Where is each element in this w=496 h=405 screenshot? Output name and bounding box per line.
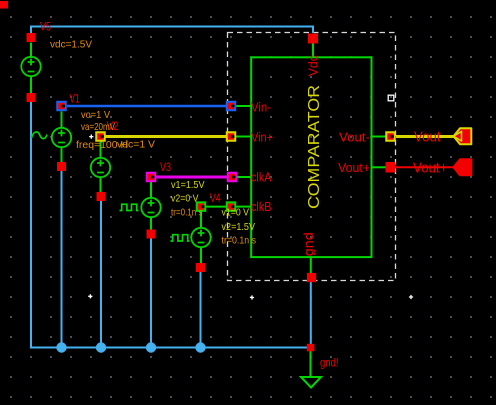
- svg-text:v1=1.5V: v1=1.5V: [171, 179, 205, 191]
- svg-text:clkB: clkB: [251, 199, 272, 214]
- svg-text:Vout+: Vout+: [413, 159, 448, 176]
- svg-text:va=20mV: va=20mV: [81, 121, 115, 133]
- svg-text:V4: V4: [210, 191, 221, 205]
- svg-text:COMPARATOR: COMPARATOR: [306, 85, 323, 209]
- svg-text:V3: V3: [160, 160, 171, 174]
- svg-text:Vout+: Vout+: [338, 160, 370, 175]
- svg-text:tr=0.1n s: tr=0.1n s: [171, 207, 203, 219]
- svg-text:V1: V1: [70, 92, 80, 106]
- svg-text:vdc=1 V: vdc=1 V: [117, 139, 155, 151]
- svg-text:V5: V5: [40, 20, 51, 34]
- svg-text:gnd: gnd: [301, 232, 316, 256]
- svg-text:v2=1.5V: v2=1.5V: [222, 221, 256, 233]
- svg-text:tr=0.1n s: tr=0.1n s: [222, 235, 257, 247]
- svg-text:Vdc: Vdc: [306, 55, 321, 76]
- svg-text:Vin+: Vin+: [251, 130, 273, 145]
- svg-text:v2=0 V: v2=0 V: [171, 192, 199, 204]
- svg-text:Vout-: Vout-: [339, 130, 370, 145]
- svg-text:v1=0 V: v1=0 V: [222, 207, 250, 219]
- svg-text:vdc=1.5V: vdc=1.5V: [50, 38, 92, 50]
- svg-text:clkA: clkA: [251, 170, 272, 185]
- svg-text:Vin-: Vin-: [251, 100, 271, 115]
- svg-text:vo=1 V: vo=1 V: [81, 109, 110, 121]
- svg-text:Vout: Vout: [414, 128, 441, 145]
- svg-text:gnd!: gnd!: [320, 356, 339, 370]
